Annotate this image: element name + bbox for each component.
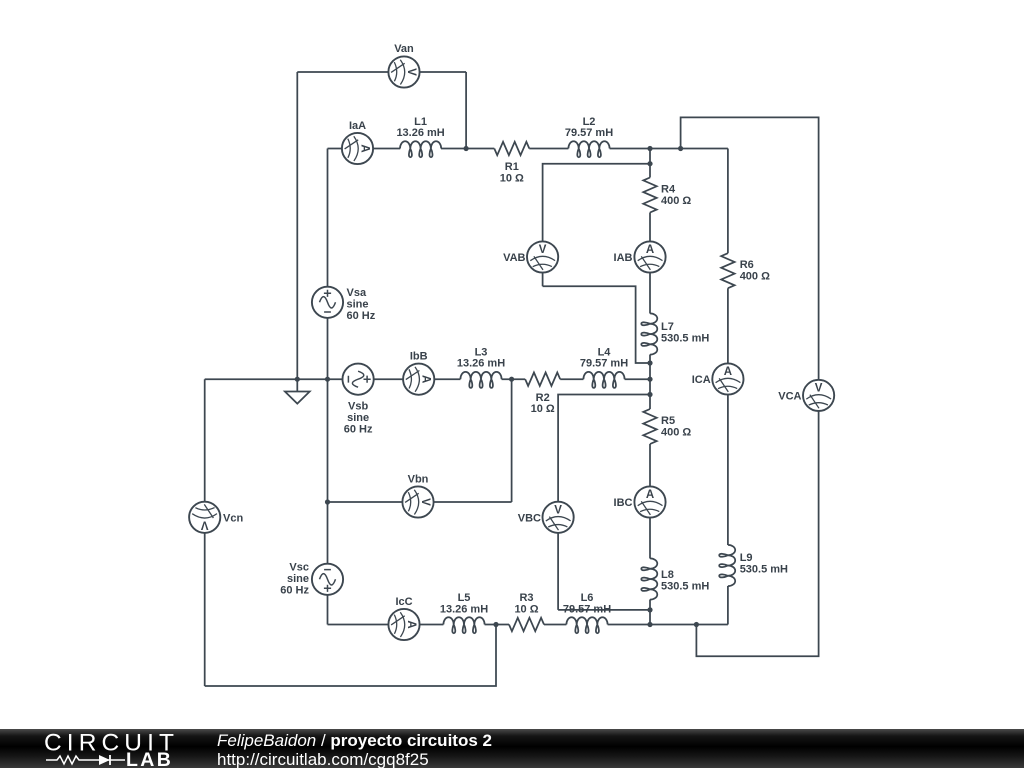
wire row B left segment through Vsb and IbB to L3	[205, 378, 461, 380]
svg-text:R1: R1	[505, 161, 519, 173]
svg-text:R2: R2	[536, 392, 550, 404]
wire Vbn riser to row B	[511, 379, 513, 502]
resistor R4	[643, 178, 656, 213]
svg-text:60 Hz: 60 Hz	[344, 424, 373, 436]
wire Vcn vertical line	[204, 379, 206, 686]
svg-text:LAB: LAB	[126, 749, 173, 768]
voltmeter VBC	[543, 502, 574, 533]
svg-text:530.5 mH: 530.5 mH	[661, 333, 709, 345]
svg-text:400 Ω: 400 Ω	[740, 271, 770, 283]
voltmeter Vcn	[189, 502, 220, 533]
svg-text:L7: L7	[661, 321, 674, 333]
wire row A L1 to R1	[441, 148, 494, 150]
wire VBC top branch	[558, 395, 650, 610]
wire node column R5 to IBC to L8	[649, 444, 651, 559]
wire row A R1 to L2	[529, 148, 568, 150]
svg-text:530.5 mH: 530.5 mH	[661, 581, 709, 593]
svg-text:Vsc: Vsc	[289, 562, 309, 574]
ammeter IBC	[634, 486, 665, 517]
voltmeter Van	[388, 56, 419, 87]
wire Vsc vertical branch	[327, 379, 329, 624]
wire row A from corner through IaA to L1	[328, 148, 401, 150]
svg-text:13.26 mH: 13.26 mH	[440, 603, 488, 615]
junction node VBC bottom / L8	[647, 607, 652, 612]
svg-text:10 Ω: 10 Ω	[514, 603, 538, 615]
ammeter IaA	[342, 133, 373, 164]
ground	[285, 379, 310, 403]
svg-text:A: A	[646, 244, 654, 256]
resistor R3	[509, 618, 544, 631]
resistor R5	[643, 409, 656, 444]
junction node Vbn / Vsc column	[325, 499, 330, 504]
svg-text:13.26 mH: 13.26 mH	[396, 127, 444, 139]
junction node row A / Van riser	[464, 146, 469, 151]
svg-text:V: V	[201, 518, 209, 530]
wire node column L8 to row C	[649, 600, 651, 625]
svg-text:A: A	[359, 144, 371, 152]
wire VBC bottom link to L8 node	[558, 609, 650, 611]
svg-text:Vsb: Vsb	[348, 401, 368, 413]
wire row A L2 to top-right corner	[610, 148, 728, 150]
svg-text:R5: R5	[661, 415, 675, 427]
wire VAB top branch	[543, 164, 650, 287]
svg-text:V: V	[554, 504, 562, 516]
wire row C corner through IcC to L5	[328, 624, 444, 626]
ammeter ICA	[712, 363, 743, 394]
junction node row C / bottom-left return	[493, 622, 498, 627]
svg-text:R4: R4	[661, 184, 676, 196]
ammeter IbB	[403, 364, 434, 395]
svg-text:L9: L9	[740, 552, 753, 564]
wire node column R4 to IAB to L7	[649, 213, 651, 314]
wire row C L6 to right corner	[608, 624, 728, 626]
svg-text:Van: Van	[394, 43, 414, 55]
resistor R2	[525, 373, 560, 386]
wire right column R6-ICA-L9	[727, 288, 729, 545]
svg-text:10 Ω: 10 Ω	[500, 173, 524, 185]
svg-text:V: V	[405, 68, 417, 76]
wire right column down to R6	[727, 149, 729, 254]
svg-text:R3: R3	[519, 592, 533, 604]
wire Van left vertical down to ground node	[296, 72, 298, 379]
svg-text:79.57 mH: 79.57 mH	[580, 358, 628, 370]
voltmeter VAB	[527, 241, 558, 272]
inductor L8	[641, 558, 657, 599]
wire row C R3 to L6	[544, 624, 566, 626]
svg-text:A: A	[420, 375, 432, 383]
svg-text:A: A	[405, 620, 417, 628]
resistor R1	[494, 142, 529, 155]
svg-text:L8: L8	[661, 569, 674, 581]
svg-text:60 Hz: 60 Hz	[347, 310, 376, 322]
svg-text:13.26 mH: 13.26 mH	[457, 358, 505, 370]
junction node row A / R4 column	[647, 146, 652, 151]
inductor L9	[719, 545, 735, 586]
voltage source Vsa	[312, 287, 343, 318]
CircuitLab logo	[0, 729, 180, 768]
svg-text:R6: R6	[740, 259, 754, 271]
wire row C L5 to R3	[485, 624, 509, 626]
wire bottom-left return	[205, 625, 496, 687]
inductor L1	[400, 141, 441, 157]
svg-text:V: V	[539, 244, 547, 256]
svg-text:530.5 mH: 530.5 mH	[740, 564, 788, 576]
svg-text:A: A	[646, 489, 654, 501]
junction node VAB top branch	[647, 161, 652, 166]
svg-text:79.57 mH: 79.57 mH	[563, 603, 611, 615]
wire row B R2 to L4	[560, 378, 583, 380]
inductor L7	[641, 313, 657, 354]
svg-text:Vcn: Vcn	[223, 512, 243, 524]
svg-text:IBC: IBC	[614, 497, 633, 509]
wire top-right jog up and over to VCA	[681, 117, 819, 396]
voltage source Vsc	[312, 564, 343, 595]
wire right column L9 to row C	[727, 586, 729, 625]
wire node column L7 to R5 with row B crossing	[649, 355, 651, 410]
svg-text:V: V	[419, 498, 431, 506]
wire row B L3 to R2	[502, 378, 526, 380]
svg-text:L5: L5	[458, 592, 471, 604]
svg-text:VAB: VAB	[503, 252, 525, 264]
svg-text:sine: sine	[347, 299, 369, 311]
inductor L6	[566, 617, 607, 633]
inductor L2	[568, 141, 609, 157]
junction node row B / R4-R5 column	[647, 377, 652, 382]
wire node column R4 top lead	[649, 149, 651, 178]
junction node row C / VCA return	[694, 622, 699, 627]
junction node VAB bottom branch	[647, 360, 652, 365]
wire Van right vertical to row A	[465, 72, 467, 149]
svg-text:Vsa: Vsa	[347, 287, 367, 299]
wire VCA bottom return	[696, 395, 818, 656]
junction node VBC top branch	[647, 392, 652, 397]
wire row B L4 to node column	[625, 378, 650, 380]
svg-text:A: A	[724, 366, 732, 378]
svg-text:IaA: IaA	[349, 120, 366, 132]
inductor L3	[460, 372, 501, 388]
inductor L5	[443, 617, 484, 633]
ammeter IAB	[634, 241, 665, 272]
svg-text:IcC: IcC	[395, 596, 412, 608]
junction node row B / Vsa-Vsc column	[325, 377, 330, 382]
wire Van top horizontal	[297, 71, 466, 73]
svg-text:79.57 mH: 79.57 mH	[565, 127, 613, 139]
svg-text:10 Ω: 10 Ω	[531, 403, 555, 415]
svg-text:ICA: ICA	[692, 374, 711, 386]
voltmeter VCA	[803, 380, 834, 411]
svg-text:L6: L6	[581, 592, 594, 604]
svg-text:VBC: VBC	[518, 512, 541, 524]
svg-text:VCA: VCA	[778, 390, 801, 402]
junction node row B / Vbn riser	[509, 377, 514, 382]
svg-text:sine: sine	[347, 412, 369, 424]
svg-text:400 Ω: 400 Ω	[661, 195, 691, 207]
junction node row A / top jog	[678, 146, 683, 151]
wire Vsa vertical branch	[327, 149, 329, 380]
wire Vbn horizontal branch	[328, 501, 512, 503]
svg-text:V: V	[815, 382, 823, 394]
voltage source Vsb	[343, 364, 374, 395]
svg-text:sine: sine	[287, 573, 309, 585]
voltmeter Vbn	[402, 486, 433, 517]
svg-text:400 Ω: 400 Ω	[661, 427, 691, 439]
svg-text:IbB: IbB	[410, 351, 428, 363]
svg-text:Vbn: Vbn	[408, 474, 429, 486]
svg-text:60 Hz: 60 Hz	[280, 585, 309, 597]
inductor L4	[583, 372, 624, 388]
junction node ground junction	[295, 377, 300, 382]
wire VAB bottom jog	[543, 286, 650, 363]
ammeter IcC	[388, 609, 419, 640]
svg-text:IAB: IAB	[614, 252, 633, 264]
junction node row C / L8 column	[647, 622, 652, 627]
resistor R6	[721, 253, 734, 288]
